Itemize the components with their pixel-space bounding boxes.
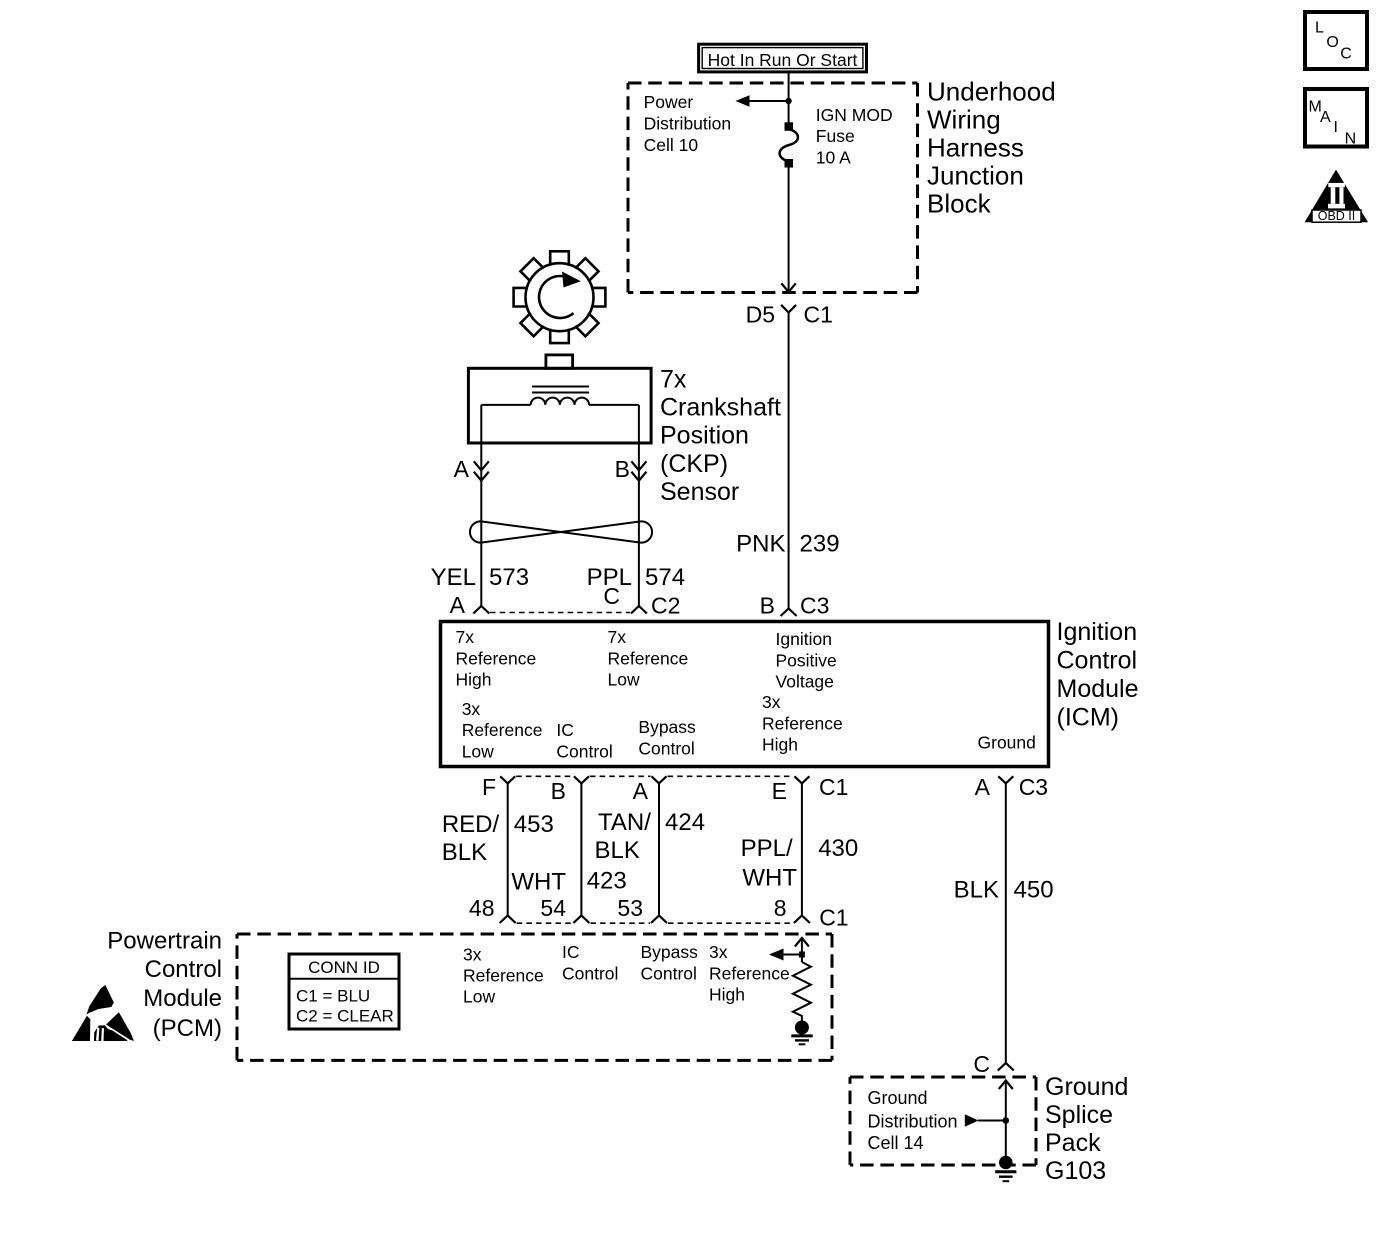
svg-text:(CKP): (CKP) (660, 450, 728, 478)
svg-text:3x: 3x (462, 699, 481, 719)
rotation arrow inside gear (539, 276, 573, 318)
dashed connector line between pins A and C (490, 612, 630, 614)
connector 48 at PCM (male) (500, 916, 516, 924)
label Powertrain Control Module (PCM) (107, 928, 222, 1042)
svg-text:Bypass: Bypass (638, 717, 696, 737)
svg-text:Control: Control (556, 742, 612, 762)
svg-text:(PCM): (PCM) (153, 1015, 222, 1042)
svg-text:High: High (709, 985, 745, 1005)
twisted pair symbol (470, 521, 652, 542)
svg-text:C: C (603, 583, 620, 609)
label Bypass Control (638, 717, 696, 758)
connector pin A at sensor (double chevron) (474, 461, 489, 480)
wire PPL/WHT 430 (pin E to PCM 8) (801, 783, 803, 915)
svg-text:Reference: Reference (762, 713, 843, 733)
svg-text:7x: 7x (660, 365, 687, 393)
svg-text:I: I (1334, 119, 1338, 136)
label 3x Reference High (762, 692, 843, 755)
connector A at ICM C2 (male) (473, 606, 489, 614)
wire to Power Distribution Cell 10 (left arrow) (748, 100, 789, 102)
svg-text:BLK: BLK (442, 839, 487, 866)
svg-text:Cell 14: Cell 14 (868, 1133, 924, 1153)
svg-text:RED/: RED/ (442, 811, 500, 838)
svg-text:IGN MOD: IGN MOD (816, 105, 893, 125)
svg-text:3x: 3x (709, 942, 728, 962)
svg-text:423: 423 (587, 868, 627, 895)
svg-text:IC: IC (556, 720, 574, 740)
node: junction dot in splice pack (1003, 1117, 1010, 1124)
svg-text:Junction: Junction (927, 161, 1024, 191)
svg-text:Harness: Harness (927, 133, 1024, 163)
label Ground Distribution Cell 14 (868, 1088, 958, 1153)
connector 8 at PCM (male) (794, 916, 810, 924)
svg-text:424: 424 (665, 809, 705, 836)
dashed connector outline at ICM bottom (516, 775, 793, 777)
Hot In Run Or Start box (699, 44, 867, 72)
CKP sensor body box (468, 368, 651, 443)
LOC icon box (1305, 12, 1367, 69)
svg-text:Ignition: Ignition (1057, 618, 1138, 646)
svg-text:Reference: Reference (463, 966, 544, 986)
label 3x Reference Low (462, 699, 543, 762)
svg-text:Ground: Ground (868, 1088, 928, 1108)
wire: coil right lead (589, 404, 639, 406)
svg-text:C3: C3 (1019, 774, 1048, 800)
node: junction at pin 8 internal (799, 952, 805, 958)
svg-text:453: 453 (514, 811, 554, 838)
svg-text:WHT: WHT (511, 868, 566, 895)
svg-text:Positive: Positive (776, 650, 837, 670)
svg-text:Underhood: Underhood (927, 77, 1056, 107)
svg-text:Module: Module (1057, 675, 1139, 703)
svg-text:A: A (450, 592, 466, 618)
OBD II icon (1305, 170, 1368, 223)
ground (PCM internal) (795, 1021, 809, 1035)
svg-text:A: A (633, 778, 649, 804)
label 7x Reference Low (608, 627, 689, 690)
svg-text:E: E (772, 778, 787, 804)
svg-text:N: N (1345, 131, 1357, 148)
svg-text:C1: C1 (819, 774, 848, 800)
Underhood Wiring Harness Junction Block (dashed box) (628, 83, 918, 293)
svg-text:OBD II: OBD II (1318, 209, 1356, 223)
wire PNK 239 vertical (788, 313, 790, 609)
label 7x Reference High (456, 627, 537, 690)
label IC Control (PCM) (562, 942, 618, 984)
svg-text:Distribution: Distribution (644, 114, 732, 134)
svg-text:Reference: Reference (709, 964, 790, 984)
label IGN MOD Fuse 10 A (816, 105, 893, 168)
label Ignition Control Module (ICM) (1057, 618, 1139, 732)
svg-text:TAN/: TAN/ (598, 809, 651, 836)
svg-text:L: L (1315, 20, 1324, 37)
CKP sensor neck (546, 355, 573, 368)
svg-text:Control: Control (145, 956, 222, 983)
wire to 3x Reference High sense (left arrow) (783, 954, 802, 956)
svg-text:430: 430 (818, 835, 858, 862)
svg-text:Low: Low (463, 987, 495, 1007)
svg-text:Position: Position (660, 422, 749, 450)
svg-text:C2 = CLEAR: C2 = CLEAR (296, 1007, 394, 1026)
ESD sensitivity symbol (72, 985, 134, 1041)
svg-text:C3: C3 (800, 593, 829, 619)
svg-text:10 A: 10 A (816, 147, 851, 167)
connector B at ICM (female Y) (574, 776, 589, 783)
connector B / C3 at ICM (male) (781, 609, 797, 617)
svg-text:B: B (615, 456, 630, 482)
svg-text:450: 450 (1014, 877, 1054, 904)
svg-text:Module: Module (143, 985, 222, 1012)
svg-text:Distribution: Distribution (868, 1112, 958, 1132)
wire from Hot In Run Or Start into junction block (788, 72, 790, 123)
connector C at Ground Splice Pack (male) (998, 1063, 1014, 1071)
connector C at ICM C2 (male) (631, 606, 647, 614)
label Power Distribution Cell 10 (644, 92, 732, 155)
svg-text:7x: 7x (608, 627, 627, 647)
svg-text:B: B (551, 778, 566, 804)
svg-text:BLK: BLK (595, 837, 640, 864)
svg-text:YEL: YEL (431, 564, 476, 591)
svg-text:G103: G103 (1045, 1157, 1106, 1185)
wire: coil left lead (481, 404, 530, 406)
svg-text:Control: Control (562, 964, 618, 984)
svg-text:Fuse: Fuse (816, 126, 855, 146)
wire TAN/BLK 423 (pin A to PCM 53) (658, 783, 660, 915)
svg-text:B: B (760, 593, 775, 619)
svg-text:Hot In Run Or Start: Hot In Run Or Start (708, 50, 858, 70)
connector 53 at PCM (male) (651, 916, 667, 924)
svg-text:F: F (482, 774, 496, 800)
svg-text:BLK: BLK (954, 877, 999, 904)
wire to Ground Distribution Cell 14 (right arrow) (978, 1120, 1006, 1122)
svg-text:Voltage: Voltage (776, 672, 834, 692)
svg-text:High: High (762, 735, 798, 755)
svg-text:(ICM): (ICM) (1057, 704, 1119, 732)
svg-text:C1: C1 (819, 905, 848, 931)
wire BLK 450 (ICM ground A to splice pack C) (1005, 783, 1007, 1063)
svg-text:Control: Control (1057, 647, 1138, 675)
label 7x Crankshaft Position (CKP) Sensor (660, 365, 781, 506)
reluctor wheel (gear with rotation arrow) (514, 251, 606, 343)
ground G103 (999, 1156, 1013, 1170)
svg-text:Crankshaft: Crankshaft (660, 394, 781, 422)
svg-text:O: O (1326, 34, 1338, 51)
svg-text:D5: D5 (746, 302, 775, 328)
svg-text:54: 54 (540, 895, 566, 921)
svg-text:Pack: Pack (1045, 1129, 1101, 1157)
svg-text:IC: IC (562, 942, 580, 962)
svg-text:Block: Block (927, 189, 992, 219)
svg-text:Control: Control (641, 964, 697, 984)
svg-text:A: A (454, 456, 470, 482)
label 3x Reference High (PCM) (709, 942, 790, 1005)
svg-text:3x: 3x (463, 945, 482, 965)
core lines of pickup coil (532, 386, 589, 388)
svg-text:Ignition: Ignition (776, 629, 832, 649)
Ground Splice Pack G103 (dashed box) (850, 1077, 1036, 1165)
connector 54 at PCM (male) (573, 916, 589, 924)
svg-text:WHT: WHT (742, 865, 797, 892)
connector pin B at sensor (double chevron) (631, 461, 646, 480)
svg-text:Reference: Reference (608, 648, 689, 668)
label Underhood Wiring Harness Junction Block (927, 77, 1056, 219)
svg-text:Splice: Splice (1045, 1101, 1113, 1129)
svg-text:Cell 10: Cell 10 (644, 135, 699, 155)
svg-text:574: 574 (645, 564, 685, 591)
svg-text:3x: 3x (762, 692, 781, 712)
svg-text:8: 8 (774, 895, 787, 921)
svg-text:CONN ID: CONN ID (308, 958, 380, 977)
svg-text:High: High (456, 670, 492, 690)
inductor coil L (pickup coil) (531, 398, 589, 405)
svg-text:C2: C2 (651, 593, 680, 619)
label IC Control (556, 720, 612, 761)
node: junction dot to Power Distribution feed (785, 98, 791, 104)
wire from fuse down to junction block edge (arrow) (781, 168, 795, 293)
svg-text:48: 48 (469, 895, 495, 921)
svg-text:Ground: Ground (978, 733, 1036, 753)
module box: Ignition Control Module (ICM) (441, 622, 1049, 767)
wire: sensor pin A down (480, 405, 482, 606)
dashed connector outline at PCM top (517, 922, 793, 924)
svg-text:Bypass: Bypass (641, 942, 699, 962)
svg-text:PNK: PNK (736, 531, 785, 558)
svg-text:PPL/: PPL/ (741, 835, 793, 862)
svg-text:C1 = BLU: C1 = BLU (296, 987, 370, 1006)
Powertrain Control Module (dashed box) (237, 934, 832, 1060)
wire pin 8 internal with up arrow (795, 938, 809, 962)
svg-text:Reference: Reference (456, 648, 537, 668)
wire inside splice pack with up arrow (999, 1081, 1013, 1158)
svg-text:Reference: Reference (462, 720, 543, 740)
svg-text:7x: 7x (456, 627, 475, 647)
svg-text:Sensor: Sensor (660, 478, 739, 506)
svg-text:Low: Low (462, 742, 494, 762)
svg-text:A: A (1320, 109, 1331, 126)
fuse IGN MOD 10 A (780, 122, 798, 167)
svg-text:A: A (975, 774, 991, 800)
svg-text:C: C (1340, 46, 1352, 63)
label Ground Splice Pack G103 (1045, 1073, 1128, 1185)
connector A at ICM ground pin (female Y) (998, 776, 1013, 783)
svg-text:Control: Control (638, 738, 694, 758)
svg-text:C: C (973, 1051, 990, 1077)
resistor R (pull-down in PCM) (793, 962, 811, 1022)
CONN ID table (289, 954, 399, 1029)
wire WHT 54 (pin B to PCM 54) (580, 783, 582, 915)
connector F at ICM (female Y) (500, 776, 515, 783)
svg-text:573: 573 (489, 564, 529, 591)
svg-text:Low: Low (608, 670, 640, 690)
wire: sensor pin B down (638, 405, 640, 606)
connector D5 / C1 (female Y) (781, 305, 796, 313)
connector E at ICM (female Y) (794, 776, 809, 783)
svg-text:53: 53 (617, 895, 643, 921)
connector A at ICM (female Y) (652, 776, 667, 783)
label Ignition Positive Voltage (776, 629, 837, 692)
svg-text:Power: Power (644, 92, 694, 112)
MAIN icon box (1305, 89, 1367, 148)
label 3x Reference Low (PCM) (463, 945, 544, 1007)
svg-text:Powertrain: Powertrain (107, 928, 222, 955)
svg-text:Wiring: Wiring (927, 105, 1001, 135)
svg-text:Ground: Ground (1045, 1073, 1128, 1101)
wire RED/BLK 453 (pin F to PCM 48) (507, 783, 509, 915)
svg-text:C1: C1 (804, 302, 833, 328)
label Bypass Control (PCM) (641, 942, 699, 984)
svg-text:239: 239 (800, 531, 840, 558)
